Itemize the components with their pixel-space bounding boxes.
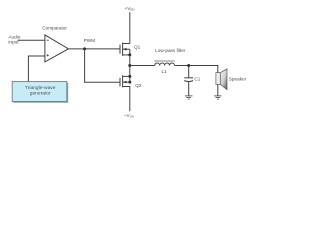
wire PWM node to Q2 gate (85, 49, 120, 82)
inductor L1 core lines (155, 59, 175, 61)
arrow Q1 body (123, 48, 126, 51)
inductor L1 coil (155, 63, 175, 65)
arrow Q2 body (123, 81, 126, 84)
wire inductor to C1 node (175, 65, 189, 67)
box triangle-wave generator shadow (13, 83, 67, 103)
junction dot C1 node (187, 64, 190, 67)
junction dot PWM node (83, 47, 86, 50)
pin plus of comparator (47, 54, 49, 56)
ground below C1 (185, 96, 193, 99)
svg-text:Audio: Audio (8, 34, 20, 39)
svg-text:PWM: PWM (84, 38, 96, 43)
wire speaker to ground (217, 84, 219, 95)
junction dot Q1 source (128, 53, 131, 56)
wire C1 bottom lead to ground (188, 82, 190, 96)
svg-text:Q1: Q1 (134, 44, 141, 49)
junction dot Q2 drain (128, 75, 131, 78)
wire output node to inductor L1 (130, 65, 155, 67)
svg-text:Low-pass filter: Low-pass filter (155, 48, 186, 53)
junction dot Q2 body (128, 81, 131, 84)
svg-text:Speaker: Speaker (229, 77, 247, 82)
wire Q1 source to Q2 drain bus (129, 55, 131, 82)
svg-text:SS: SS (130, 114, 134, 118)
junction dot output node to filter (128, 64, 131, 67)
op-amp U1 comparator triangle (45, 35, 69, 62)
svg-text:Q2: Q2 (135, 83, 142, 88)
svg-text:C1: C1 (194, 76, 200, 81)
wire C1 top lead (188, 66, 190, 78)
wire triangle-wave generator to comparator non-inverting input (28, 56, 45, 82)
box triangle-wave generator (12, 82, 67, 102)
pin minus of comparator (47, 39, 49, 41)
wire audio input to comparator inverting input (18, 39, 45, 41)
svg-text:Comparator: Comparator (42, 26, 67, 31)
wire Q2 source to -VSS (123, 87, 130, 112)
speaker driver box (216, 73, 220, 85)
transistor Q1 (120, 43, 130, 56)
transistor Q2 (120, 75, 130, 87)
wire comparator output to Q1 gate (68, 48, 120, 50)
ground below speaker (214, 96, 222, 99)
capacitor C1 (184, 77, 193, 79)
wire +VDD to Q1 drain (129, 12, 131, 43)
svg-text:L1: L1 (162, 69, 168, 74)
wire C1 node to speaker (189, 66, 218, 73)
svg-text:Triangle-wave: Triangle-wave (25, 85, 56, 91)
svg-text:generator: generator (30, 90, 51, 96)
